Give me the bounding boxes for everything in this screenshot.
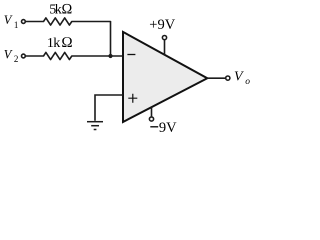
node V2 label xyxy=(4,47,19,64)
resistor R1 5k with wire xyxy=(26,18,111,25)
minus input sign xyxy=(127,54,135,56)
node Vo label xyxy=(234,70,250,87)
svg-text:2: 2 xyxy=(14,54,19,64)
-9V terminal xyxy=(149,117,153,121)
+9V supply stub xyxy=(164,40,166,55)
svg-text:9V: 9V xyxy=(159,120,177,136)
wire ground to plus input xyxy=(95,95,123,121)
svg-text:Ω: Ω xyxy=(61,35,73,51)
output wire xyxy=(207,77,226,79)
svg-text:1: 1 xyxy=(14,20,19,30)
terminal V1 xyxy=(22,20,26,24)
svg-text:+9V: +9V xyxy=(149,17,175,33)
terminal V2 xyxy=(22,54,26,58)
ground xyxy=(87,122,103,130)
node V1 label xyxy=(4,13,19,30)
plus input sign xyxy=(128,94,137,103)
svg-text:V: V xyxy=(4,13,13,27)
op-amp U1 triangle xyxy=(123,32,207,122)
svg-text:V: V xyxy=(4,47,13,61)
-9V supply stub xyxy=(151,107,153,116)
resistor R2 1k with wire to op-amp xyxy=(26,52,123,59)
+9V terminal xyxy=(162,36,166,40)
svg-text:o: o xyxy=(245,77,250,87)
junction dot xyxy=(108,54,112,58)
svg-text:k: k xyxy=(53,36,60,51)
output terminal xyxy=(226,76,230,80)
svg-text:V: V xyxy=(234,70,244,85)
-9V label xyxy=(150,126,158,128)
svg-text:Ω: Ω xyxy=(61,2,72,18)
wire V1 branch down xyxy=(110,22,112,57)
